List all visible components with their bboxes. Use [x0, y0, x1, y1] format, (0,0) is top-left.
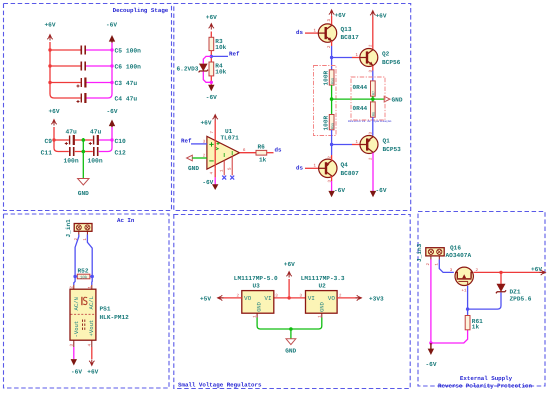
svg-text:BCP56: BCP56 — [382, 59, 401, 66]
svg-text:Q13: Q13 — [341, 26, 352, 33]
wire GND green U-shape — [257, 318, 322, 330]
wire J_in3-1 blue to Q16 — [439, 260, 454, 273]
junction left C3 — [48, 81, 51, 84]
PS1 isolation dashes — [83, 320, 85, 332]
wire AC L right blue — [87, 235, 92, 277]
wire C9-C10 middle row1 — [75, 139, 93, 141]
resistor R3 — [209, 37, 214, 50]
wire 100R upper to green node — [331, 85, 333, 99]
wire +6V vertical left rail — [50, 42, 54, 98]
capacitor C4 polarized — [77, 93, 86, 103]
svg-text:-6V: -6V — [206, 94, 217, 101]
svg-text:R59: R59 — [331, 123, 336, 129]
svg-text:C6 100n: C6 100n — [115, 64, 142, 71]
svg-text:R6: R6 — [258, 144, 266, 151]
svg-text:Decoupling Stage: Decoupling Stage — [113, 7, 169, 14]
junction +6V node — [287, 296, 290, 299]
wire node to Q2 base blue — [332, 57, 352, 59]
svg-text:+6V: +6V — [531, 266, 542, 273]
wire R3 to Ref node — [210, 51, 212, 62]
svg-text:ds: ds — [296, 165, 303, 172]
svg-text:R7: R7 — [372, 91, 377, 95]
wire C6 right — [86, 65, 112, 67]
wire +6V to node — [288, 279, 290, 298]
svg-text:VO: VO — [244, 295, 252, 302]
capacitor C6 — [81, 62, 85, 71]
wire pin4 -6V red part — [214, 169, 216, 178]
wire C6 left — [50, 65, 81, 67]
wire ds to Q4 base — [305, 167, 319, 169]
wire zener branch upper — [203, 56, 211, 63]
transistor Q1 PNP — [360, 136, 378, 154]
svg-text:Ref: Ref — [181, 137, 192, 144]
power +6V open arrow right ext — [540, 270, 547, 275]
svg-text:J_in3: J_in3 — [416, 243, 423, 262]
connector J_in1 — [74, 224, 92, 232]
wire Q1 base red stub — [352, 144, 360, 146]
svg-text:-6V: -6V — [106, 22, 117, 29]
junction C10 node — [110, 138, 113, 141]
wire -Vout magenta — [73, 347, 75, 359]
PS1 pin stub 1 — [91, 285, 93, 289]
junction R52 left — [73, 275, 76, 278]
wire C11-C12 middle row2 — [75, 151, 93, 153]
svg-text:Q16: Q16 — [450, 245, 461, 252]
svg-text:-6V: -6V — [426, 361, 437, 368]
svg-text:DZ1: DZ1 — [510, 289, 521, 296]
PS1 transformer icon — [82, 297, 87, 305]
wire zener branch lower — [203, 72, 211, 83]
power +6V open arrow Q2 — [370, 10, 375, 17]
wire to PS1 pin2 — [74, 277, 75, 286]
power -6V filled arrow ext — [428, 343, 434, 355]
svg-text:+1: +1 — [462, 289, 467, 294]
power +6V open arrow down PS1 — [89, 360, 94, 367]
wire 0R44 upper to green — [372, 96, 374, 102]
svg-text:-6V: -6V — [334, 187, 345, 194]
svg-text:Q2: Q2 — [382, 51, 390, 58]
power +6V open arrow Q13 — [329, 9, 334, 16]
svg-text:AC/L: AC/L — [88, 296, 95, 309]
junction left C5 — [48, 48, 51, 51]
power +6V open arrow — [47, 34, 52, 41]
section box Decoupling Stage — [4, 4, 172, 211]
resistor R52 — [77, 274, 90, 279]
pin stub J_in1-1 — [86, 231, 88, 234]
wire Q2 collector +6V — [372, 17, 374, 50]
svg-text:VI: VI — [308, 295, 315, 302]
svg-text:+Vout: +Vout — [88, 320, 95, 337]
svg-text:0R44: 0R44 — [353, 105, 368, 112]
junction GND center — [289, 327, 293, 331]
wire C4 right — [86, 97, 108, 99]
power -6V filled arrow divider — [208, 85, 214, 91]
resistor R61 — [465, 316, 470, 330]
resistor 0R44 upper — [371, 81, 376, 96]
capacitor C11 — [70, 147, 74, 156]
junction green row2 — [82, 150, 86, 154]
wire Q13 emitter to node (blue) — [331, 46, 333, 70]
transistor Q2 — [360, 49, 378, 67]
PS1 pin stub 4 — [91, 340, 93, 347]
wire R4 to -6V node — [210, 76, 212, 85]
junction right C3 — [110, 81, 113, 84]
capacitor C10 polarized — [89, 135, 98, 145]
resistor 100R lower — [329, 115, 334, 130]
op-amp plus mark — [209, 142, 213, 146]
power +6V open arrow lower — [51, 119, 56, 126]
capacitor C3 polarized — [77, 78, 86, 88]
svg-text:LM1117MP-3.3: LM1117MP-3.3 — [301, 275, 345, 282]
svg-text:-Vout: -Vout — [73, 321, 80, 338]
wire +Vout red — [91, 347, 93, 359]
PS1 pin stub 2 — [73, 285, 75, 289]
zener diode DZ1 — [496, 284, 506, 293]
junction R52 right — [91, 275, 94, 278]
svg-text:10k: 10k — [215, 69, 226, 76]
wire -6V vertical right rail (magenta) — [108, 43, 112, 98]
svg-text:AC/N: AC/N — [73, 297, 80, 310]
svg-text:LM1117MP-5.0: LM1117MP-5.0 — [234, 275, 278, 282]
svg-text:R58: R58 — [331, 78, 336, 84]
svg-text:Small Voltage Regulators: Small Voltage Regulators — [178, 382, 262, 389]
svg-text:+6V: +6V — [206, 14, 217, 21]
op-amp inner marks — [216, 142, 232, 157]
wire DZ1 bottom to gate node — [468, 293, 501, 310]
junction -6V node — [210, 81, 213, 84]
capacitor C5 — [81, 46, 85, 55]
wire -6V to C10 node — [111, 127, 113, 140]
svg-text:VI: VI — [264, 295, 271, 302]
svg-text:R8: R8 — [372, 112, 377, 116]
svg-text:+6V: +6V — [87, 369, 98, 376]
svg-text:VO: VO — [328, 295, 336, 302]
pin stub J_in1-2 — [78, 231, 80, 234]
wire Ref stub — [211, 55, 228, 57]
wire pin6 output — [240, 152, 257, 154]
wire R52 left stub — [75, 276, 77, 278]
power +6V open arrow divider — [209, 23, 214, 30]
svg-text:-6V: -6V — [107, 108, 118, 115]
op-amp minus mark — [209, 160, 213, 162]
wire C3 right — [86, 82, 112, 84]
svg-text:Q4: Q4 — [341, 162, 349, 169]
svg-text:BC817: BC817 — [341, 34, 360, 41]
wire Q13 collector +6V — [331, 16, 333, 25]
dash-dot box 100R resistors — [314, 66, 337, 136]
junction Q4-Q1 node — [330, 143, 333, 146]
svg-text:C10: C10 — [115, 138, 127, 145]
section box Small Voltage Regulators — [174, 215, 410, 389]
wire Q16 drain to +6V — [474, 271, 546, 273]
svg-text:+3V3: +3V3 — [369, 295, 384, 302]
wire C9 down to C11 — [54, 140, 69, 152]
no-connect X pin1 — [222, 176, 226, 180]
junction green row1 — [82, 138, 86, 142]
U3 GND pin stub — [256, 313, 258, 317]
svg-text:C5 100n: C5 100n — [115, 48, 142, 55]
U2 GND pin stub — [321, 313, 323, 317]
green rail wire — [332, 98, 384, 100]
wire pin4 magenta part — [214, 177, 216, 184]
svg-text:10k: 10k — [215, 44, 226, 51]
svg-text:U3: U3 — [253, 283, 261, 290]
power +5V open arrow left — [217, 295, 224, 300]
wire to PS1 pin1 — [91, 277, 93, 286]
svg-text:1k: 1k — [259, 157, 267, 164]
svg-text:C9: C9 — [44, 138, 52, 145]
svg-text:+5V: +5V — [200, 295, 211, 302]
svg-text:HLK-PM12: HLK-PM12 — [100, 314, 130, 321]
wire GND down — [290, 329, 292, 339]
svg-text:Q1: Q1 — [383, 138, 391, 145]
svg-text:Resistores de Equalização: Resistores de Equalização — [348, 119, 392, 123]
regulator U2 — [306, 291, 338, 314]
capacitor C12 — [94, 147, 98, 156]
svg-text:External Supply: External Supply — [460, 375, 513, 382]
pin stub 1 no-connect — [223, 160, 225, 175]
wire C10 row right — [99, 139, 112, 141]
PS1 divider dashed — [71, 313, 96, 315]
svg-text:GND: GND — [320, 302, 326, 312]
svg-text:-6V: -6V — [376, 187, 387, 194]
wire Q4 collector magenta — [331, 176, 333, 181]
power -6V filled arrow lower — [109, 120, 115, 128]
svg-text:100n: 100n — [88, 158, 103, 165]
svg-text:Reverse Polarity Protection: Reverse Polarity Protection — [438, 383, 532, 390]
pin stub 5 no-connect — [231, 156, 233, 175]
svg-text:+6V: +6V — [376, 13, 387, 20]
wire Q13 emitter red stub — [331, 41, 333, 46]
svg-text:+6V: +6V — [49, 108, 60, 115]
svg-text:C3 47u: C3 47u — [115, 80, 138, 87]
svg-text:6.2VD3: 6.2VD3 — [177, 66, 199, 73]
svg-text:C12: C12 — [115, 150, 127, 157]
wire C5 left — [50, 49, 81, 51]
wire +3V3 output — [337, 297, 361, 299]
junction right C5 — [110, 48, 113, 51]
junction -6V node — [429, 341, 432, 344]
svg-text:GND: GND — [285, 348, 296, 355]
ground GNDREF left arrow — [187, 155, 193, 161]
wire C12 up to C10 — [99, 140, 112, 152]
wire Ref to pin3 — [191, 143, 207, 145]
svg-text:100n: 100n — [64, 158, 79, 165]
power -6V filled arrow — [109, 35, 115, 43]
wire J_in3-2 magenta down — [430, 260, 432, 344]
svg-text:C11: C11 — [41, 150, 53, 157]
junction green left — [330, 97, 334, 101]
wire C4 left — [54, 97, 81, 99]
wire +6V to C9 node — [53, 127, 55, 140]
resistor 100R upper — [329, 70, 334, 85]
svg-text:ds: ds — [275, 146, 282, 153]
svg-text:1k: 1k — [472, 324, 480, 331]
resistor R6 — [256, 150, 267, 155]
wire green to GND — [82, 138, 84, 178]
power -6V filled arrow op-amp — [212, 184, 218, 190]
resistor 0R44 lower — [371, 102, 376, 117]
wire 0R44 lower to Q1 emitter — [372, 117, 374, 136]
junction right C6 — [110, 64, 113, 67]
svg-text:GND: GND — [392, 97, 403, 104]
power module PS1 — [70, 289, 96, 340]
svg-text:Ac In: Ac In — [117, 217, 135, 224]
op-amp U1 — [207, 136, 240, 169]
wire node to Q1 base — [332, 144, 352, 146]
wire R6 to ds — [267, 152, 274, 154]
junction Ref node — [210, 55, 213, 58]
junction DZ1 top — [499, 271, 502, 274]
wire C9 row left — [54, 139, 69, 141]
wire DZ1 top stub — [500, 272, 502, 284]
wire C3 left — [50, 82, 81, 84]
power -6V filled arrow Q4 — [328, 191, 334, 197]
wire Q16 gate down — [467, 286, 469, 316]
capacitor C9 polarized — [65, 135, 74, 145]
svg-text:0R44: 0R44 — [353, 84, 368, 91]
svg-text:BC807: BC807 — [341, 170, 360, 177]
svg-text:+6V: +6V — [284, 261, 295, 268]
wire ds to Q13 base — [305, 32, 318, 34]
dash-dot box 0R44 resistors — [351, 77, 385, 120]
wire Q4 emitter stub — [331, 155, 333, 160]
wire Q2 base red stub — [352, 57, 360, 59]
wire C5 right — [86, 49, 112, 51]
svg-text:+6V: +6V — [335, 12, 346, 19]
regulator U3 — [242, 291, 274, 314]
wire U3 VI to U2 VI — [274, 297, 306, 299]
junction Q13-Q2 node — [330, 56, 333, 59]
zener diode D3 — [199, 64, 208, 72]
pin stub J_in3-2 — [430, 256, 432, 260]
transistor Q4 PNP — [319, 159, 337, 177]
PS1 pin stub 3 — [73, 340, 75, 347]
svg-text:C4 47u: C4 47u — [115, 96, 138, 103]
wire +6V to R3 — [210, 32, 212, 38]
ground symbol GND — [78, 179, 89, 186]
wire pin7 +6V — [214, 121, 216, 169]
transistor Q13 — [318, 24, 336, 42]
wire green node to 100R lower — [331, 99, 333, 114]
svg-text:TL071: TL071 — [221, 135, 240, 142]
svg-text:47u: 47u — [66, 129, 78, 136]
svg-text:GND: GND — [78, 190, 89, 197]
svg-text:100R: 100R — [323, 116, 330, 131]
no-connect X pin5 — [230, 176, 234, 180]
wire R52 right stub — [90, 276, 92, 278]
junction gate node — [466, 307, 469, 310]
power +3V3 open arrow right — [356, 295, 363, 300]
svg-text:AO3407A: AO3407A — [446, 252, 472, 259]
ground symbol regulators — [286, 339, 296, 345]
junction C9 node — [52, 138, 55, 141]
svg-text:GND: GND — [188, 165, 199, 172]
junction left C6 — [48, 64, 51, 67]
ground GND right arrow — [384, 96, 390, 102]
section box External Supply — [418, 212, 545, 387]
svg-text:BCP53: BCP53 — [383, 146, 402, 153]
connector J_in3 — [426, 248, 444, 256]
wire -6V node to R61 — [431, 330, 468, 343]
power +6V open arrow op-amp — [213, 114, 218, 121]
resistor R4 — [209, 62, 214, 76]
pin stub J_in3-1 — [438, 256, 440, 260]
svg-text:ZPD5.6: ZPD5.6 — [510, 296, 532, 303]
svg-text:PS1: PS1 — [100, 306, 111, 313]
wire GND to pin2 — [192, 157, 207, 159]
svg-text:+6V: +6V — [45, 22, 56, 29]
wire Q2 emitter to 0R44 — [372, 66, 374, 71]
svg-text:Ref: Ref — [229, 50, 240, 57]
svg-text:J_in1: J_in1 — [65, 219, 72, 238]
junction green right — [371, 97, 375, 101]
svg-text:100R: 100R — [323, 71, 330, 86]
svg-text:47u: 47u — [90, 129, 102, 136]
svg-text:U2: U2 — [319, 283, 327, 290]
section box Ac In — [4, 214, 170, 388]
svg-text:-6V: -6V — [202, 179, 213, 186]
transistor Q16 PMOS — [455, 267, 473, 285]
svg-text:R52: R52 — [78, 268, 89, 275]
power -6V filled arrow Q1 — [370, 191, 376, 197]
wire Q1 collector magenta — [372, 153, 374, 191]
svg-text:-6V: -6V — [71, 369, 82, 376]
power -6V filled arrow PS1 — [71, 359, 77, 365]
section box op-amp stage — [174, 4, 411, 211]
wire AC N left blue — [75, 235, 79, 277]
svg-text:ds: ds — [296, 29, 303, 36]
svg-text:+6V: +6V — [201, 120, 212, 127]
wire +5V output — [218, 297, 242, 299]
svg-text:GND: GND — [256, 302, 262, 312]
power +6V open arrow regulators — [286, 271, 291, 278]
wire 100R lower to Q4 node — [331, 130, 333, 145]
